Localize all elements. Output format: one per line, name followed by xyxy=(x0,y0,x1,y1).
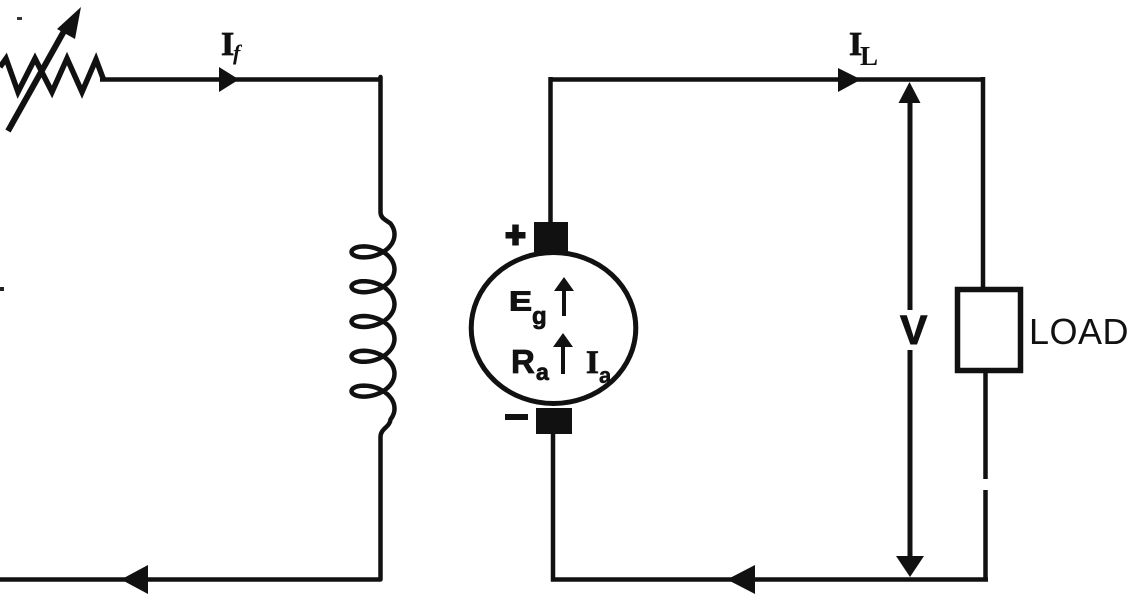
current arrow If on top-left wire xyxy=(219,67,239,92)
terminal minus (black square) xyxy=(536,408,572,434)
label minus xyxy=(505,414,528,420)
svg-text:V: V xyxy=(900,307,928,353)
current arrow on bottom-right wire (leftward) xyxy=(727,565,755,594)
svg-text:R: R xyxy=(511,343,535,380)
stray scan dot top-left xyxy=(17,17,22,20)
load resistor box xyxy=(958,290,1021,371)
generator armature G1 circle xyxy=(471,253,636,404)
svg-text:LOAD: LOAD xyxy=(1029,311,1129,352)
label + xyxy=(506,225,526,246)
wire: top-left horizontal (rheostat to field winding) xyxy=(100,77,381,82)
svg-text:g: g xyxy=(532,303,547,330)
wire: right vertical lower (load to bottom, with scan gap) xyxy=(983,371,988,582)
arrow Eg (upward) xyxy=(554,277,574,316)
svg-text:a: a xyxy=(536,359,549,385)
wire: armature bottom stub xyxy=(551,432,556,582)
wire: armature top stub xyxy=(548,77,553,232)
current arrow on bottom-left wire (leftward) xyxy=(121,565,148,594)
svg-text:E: E xyxy=(509,286,532,317)
voltmeter arrow V upper segment (pointing up) xyxy=(899,82,921,310)
rheostat R1 zigzag element xyxy=(0,59,104,93)
stray mark left edge xyxy=(0,287,4,291)
terminal plus (black square) xyxy=(534,222,568,252)
svg-text:a: a xyxy=(599,363,612,388)
field winding L1 (coil) with vertical wires xyxy=(352,77,395,580)
wire: bottom-right horizontal xyxy=(551,577,988,582)
wire: bottom-left horizontal xyxy=(0,577,380,582)
voltmeter arrow V lower segment (pointing down) xyxy=(896,350,924,577)
rheostat R1 adjustment arrow xyxy=(8,7,81,131)
svg-text:L: L xyxy=(860,41,878,71)
svg-text:I: I xyxy=(586,345,599,381)
wire: top-right horizontal (armature to load corner) xyxy=(549,77,984,82)
wire: right vertical upper (corner to load) xyxy=(981,77,986,287)
arrow Ia (upward) xyxy=(553,333,573,374)
current arrow IL on top-right wire xyxy=(838,68,861,92)
